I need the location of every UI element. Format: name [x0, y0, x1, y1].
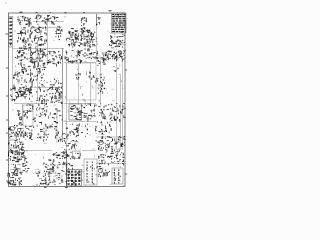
frame tick top x50 — [50, 12, 52, 14]
cluster R80-R82 — [95, 121, 111, 134]
marks C40-C42 — [64, 140, 77, 152]
driver cluster Q5 Q6 — [32, 51, 53, 67]
transistor Q13 — [11, 127, 21, 132]
rectifier cluster D5-D8 — [109, 34, 125, 48]
frame tick bottom x45 — [44, 186, 47, 188]
right parts R40 R41 — [98, 85, 105, 94]
comparator cluster IC2 — [64, 50, 82, 64]
capacitor group C3-C5 — [35, 15, 51, 25]
cluster R95s — [36, 171, 52, 186]
faint wire noise — [10, 14, 125, 186]
main bus x62 — [62, 48, 64, 140]
frame tick top x20 — [20, 11, 23, 13]
zener ZD1 parts — [50, 16, 58, 24]
feedback parts R20-R23 — [33, 65, 46, 81]
frame tick top x65 — [65, 12, 67, 14]
bias network R15-R19 — [13, 63, 30, 87]
wire bus segments — [12, 15, 124, 186]
output transistors Q8 Q9 — [96, 136, 127, 151]
marks inside U3 b — [89, 72, 95, 81]
box near R90 — [73, 151, 81, 159]
input filter parts L1 C1 C2 — [17, 16, 31, 27]
transistor Q2 group — [33, 26, 46, 43]
connector CN5 pins — [113, 169, 121, 184]
frame tick left y160 — [6, 159, 9, 161]
resistor chain zigzag R55-R60 — [8, 125, 33, 140]
relay coil parts — [25, 105, 34, 113]
cluster C50s — [43, 159, 54, 172]
frame tick left y120 — [6, 119, 9, 121]
column of dashes — [52, 162, 65, 185]
frame tick left y68 — [6, 67, 9, 69]
sparse parts x50-62 — [50, 109, 62, 121]
border frame — [9, 13, 126, 187]
frame tick right y70 — [125, 69, 127, 71]
wire bus x66 — [66, 150, 68, 186]
connector CN5 box outline — [112, 168, 123, 184]
bias parts R31-R33 — [52, 51, 62, 67]
connector CN4 box outline — [84, 159, 97, 185]
transistor Q1 group — [17, 26, 34, 42]
frame tick left y34 — [6, 33, 9, 35]
frame tick bottom x66 — [65, 186, 68, 188]
cluster near CN3 — [62, 151, 73, 170]
parts table frame — [112, 13, 127, 33]
row above R50s — [16, 88, 33, 97]
marks in box R90 — [74, 153, 80, 160]
box PS1 — [9, 140, 16, 148]
frame tick top x110 — [109, 10, 112, 12]
parts list table text — [112, 14, 126, 33]
dense connector block CN3 — [65, 168, 82, 186]
net label H — [113, 66, 119, 72]
dense cluster C10-C14 — [10, 87, 32, 102]
main oscillator cluster IC1 — [66, 28, 97, 52]
frame tick top x36 — [36, 11, 38, 13]
cluster near x57 — [54, 128, 65, 142]
row of parts R70-R75 — [66, 123, 89, 138]
IC block U3 outline — [67, 63, 97, 100]
vertical label POWER — [30, 69, 33, 89]
frame tick top x84 — [83, 12, 85, 14]
net label 64 — [97, 61, 106, 65]
cluster R51-R54 — [17, 110, 28, 126]
marks R61-R63 — [37, 127, 49, 142]
dense right row D10-D14 — [98, 103, 126, 122]
frame tick left y133 — [6, 132, 9, 134]
marks inside U3 a — [75, 73, 80, 79]
marks near pin header — [81, 17, 87, 26]
label text 1 2 3 — [52, 151, 65, 159]
bottom-left parts C30 C31 — [8, 140, 24, 153]
cluster Q10 area — [7, 172, 22, 186]
page speck — [5, 3, 6, 4]
mid network R24-R30 — [36, 79, 62, 104]
bottom-right cluster row — [98, 149, 124, 165]
connector CN1 strip — [9, 17, 13, 48]
frame tick left y181 — [6, 180, 9, 182]
page background — [0, 0, 128, 200]
frame tick left y96 — [6, 95, 9, 97]
transistor Q3 — [55, 26, 62, 40]
cluster Q7 area — [36, 100, 48, 113]
label text block — [82, 52, 96, 59]
frame tick right y174 — [125, 173, 127, 175]
right parts C20 C21 — [95, 74, 105, 86]
cluster R90s — [12, 159, 29, 173]
transformer T1 hatch — [70, 105, 83, 120]
regulator cluster Q4 R10-R14 — [15, 50, 33, 65]
relay box K1 outline — [23, 105, 33, 126]
connector CN4 pins — [86, 162, 97, 185]
transformer box T1 outline — [69, 104, 82, 120]
dense top-right band parts — [96, 50, 126, 61]
diode group D1-D3 — [35, 43, 46, 51]
scatter mid C32-C35 — [33, 113, 59, 128]
bottom-left dense cluster — [8, 149, 28, 161]
resistor group R1-R4 — [19, 41, 32, 51]
cluster right of T1 — [83, 103, 97, 121]
transistors Q11 Q12 — [97, 166, 110, 177]
wire stub x96 — [96, 14, 101, 26]
